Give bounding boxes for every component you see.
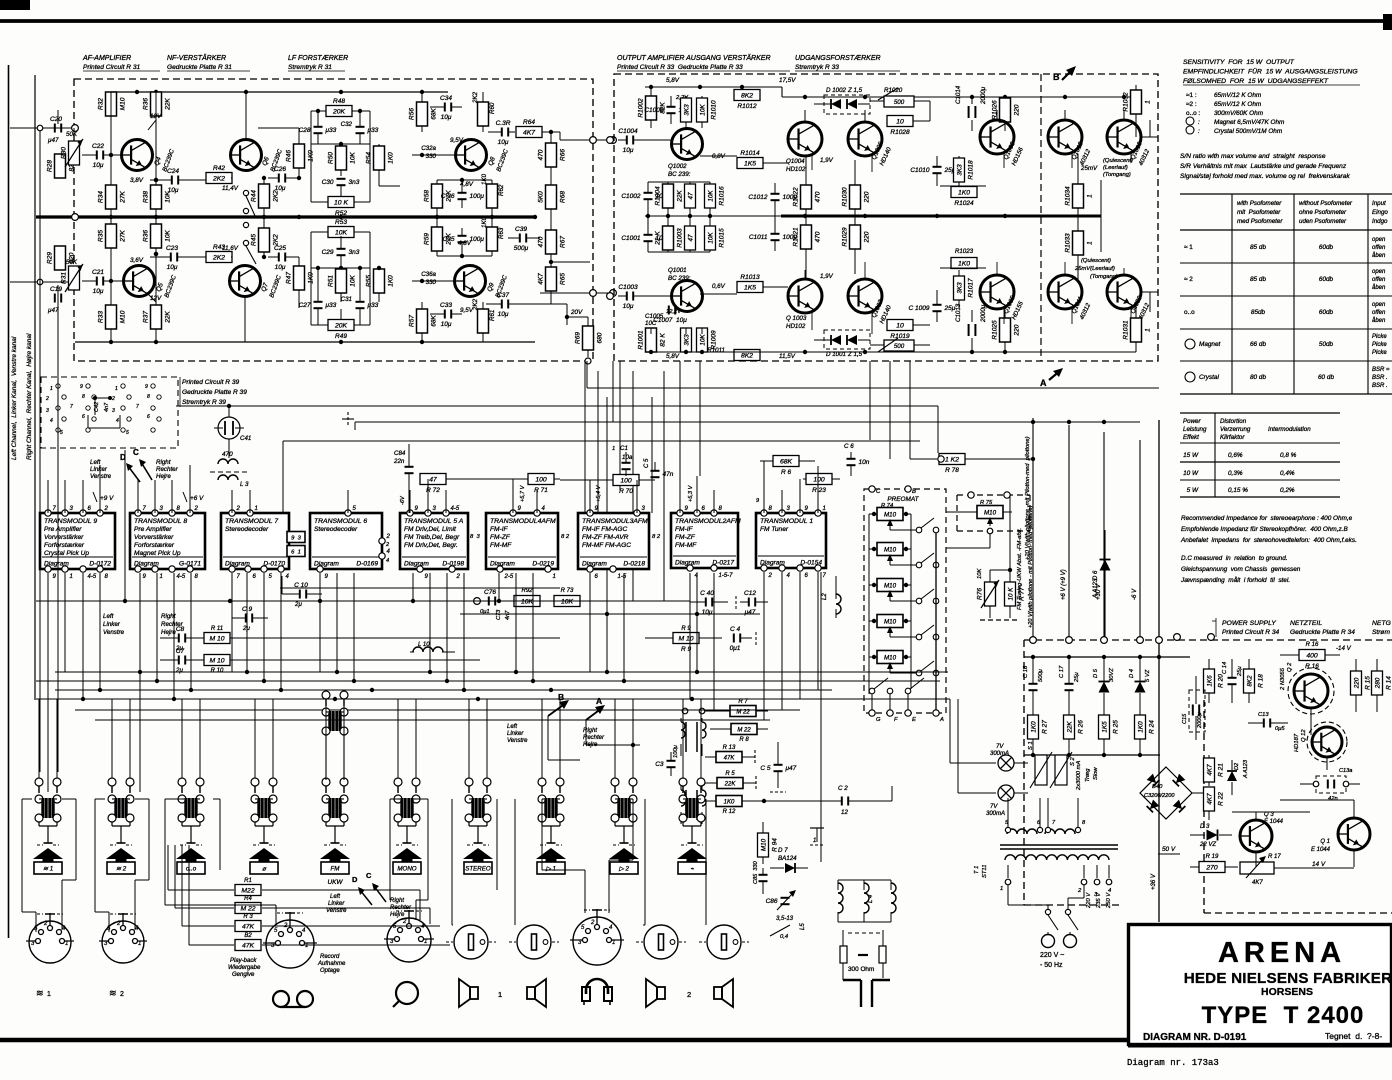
svg-text:50db: 50db (1319, 341, 1334, 348)
svg-text:100μ: 100μ (673, 744, 679, 758)
wire right out upper (1141, 136, 1158, 138)
svg-text:FM Tuning-UKW Abst. -FM-afst.: FM Tuning-UKW Abst. -FM-afst. (1017, 528, 1023, 610)
resistor R1006-47 (685, 184, 696, 208)
page border bottom (0, 1038, 1128, 1043)
svg-text:1K0: 1K0 (958, 261, 970, 268)
svg-text:≋ 1: ≋ 1 (43, 865, 53, 872)
svg-text:C26: C26 (274, 166, 286, 173)
svg-text:R4: R4 (244, 896, 252, 902)
svg-text:5,8V: 5,8V (666, 353, 680, 360)
svg-text:HD102: HD102 (786, 166, 806, 173)
svg-text:with Psofometer: with Psofometer (1237, 200, 1282, 207)
svg-text:25mV: 25mV (1080, 165, 1098, 172)
svg-text:uden Psofometer: uden Psofometer (1299, 218, 1347, 225)
rail +20V pilottone (1032, 418, 1034, 640)
function label ▷ 1 (537, 862, 565, 874)
svg-text:Intermodulation: Intermodulation (1268, 426, 1311, 433)
resistor R1031 (1131, 318, 1142, 342)
svg-text:R32: R32 (98, 98, 105, 110)
preomat lower contacts (869, 688, 875, 694)
resistor R1003 (663, 226, 674, 250)
node link lower right (610, 290, 617, 297)
svg-text:Z 1,5: Z 1,5 (847, 351, 863, 358)
wire Q emitters upper (811, 155, 813, 170)
svg-text:65mV/12 K Ohm: 65mV/12 K Ohm (1214, 92, 1262, 99)
svg-text:FM-MF FM-AGC: FM-MF FM-AGC (582, 542, 631, 549)
svg-text:10 W: 10 W (1183, 470, 1199, 477)
svg-text:Hejre: Hejre (156, 473, 171, 480)
svg-text:R52: R52 (335, 210, 347, 217)
svg-text:3K3: 3K3 (956, 164, 963, 176)
wire Q collectors upper (804, 110, 806, 122)
svg-text:1: 1 (255, 506, 258, 512)
svg-text:12V: 12V (150, 113, 162, 120)
svg-text:1K0: 1K0 (388, 152, 395, 164)
resistor R36 (151, 92, 162, 116)
svg-text:0,6V: 0,6V (712, 283, 726, 290)
svg-text:Left: Left (330, 894, 340, 900)
wire top rail (111, 91, 448, 93)
svg-text:D 5: D 5 (1093, 668, 1099, 678)
connector board R39 (41, 377, 178, 448)
capacitor C22 (96, 151, 98, 160)
svg-text:-14 V: -14 V (1336, 645, 1352, 652)
feeder 300 Ohm (840, 946, 847, 963)
svg-text:3n3: 3n3 (349, 179, 360, 186)
svg-text:C1002: C1002 (621, 193, 641, 200)
svg-text:C42: C42 (94, 402, 100, 412)
svg-text:47: 47 (687, 234, 694, 242)
svg-text:1K0: 1K0 (481, 173, 488, 185)
svg-text:M10: M10 (884, 654, 897, 661)
svg-text:10: 10 (896, 119, 904, 126)
svg-text:R44: R44 (251, 190, 258, 202)
svg-text:R1034: R1034 (1065, 186, 1072, 206)
capacitor C7 + resistor R10 (178, 656, 180, 665)
function label ≋ 2 (107, 862, 135, 874)
switch feed wires (38, 699, 40, 778)
mains switch contacts (1045, 909, 1050, 914)
svg-text:L 10: L 10 (418, 642, 430, 648)
svg-text:E 1044: E 1044 (1311, 847, 1331, 853)
wire drop group out (679, 361, 681, 490)
potentiometer R30 (69, 141, 80, 165)
svg-text:9 3: 9 3 (291, 535, 301, 541)
svg-text:C 6: C 6 (844, 443, 854, 450)
svg-text:6: 6 (147, 414, 150, 420)
svg-text:R 8: R 8 (739, 737, 749, 743)
svg-text:Jævnspænding målt i forhold: Jævnspænding målt i forhold til stel. (1180, 576, 1290, 584)
icon speaker 1 (470, 987, 478, 999)
svg-text:BSR =: BSR = (1372, 367, 1390, 373)
svg-text:R54: R54 (366, 152, 373, 164)
svg-text:R1028: R1028 (890, 129, 910, 136)
svg-text:Optage: Optage (320, 968, 340, 974)
capacitor C20 (54, 124, 56, 133)
svg-text:R46: R46 (286, 150, 293, 162)
svg-text:B40: B40 (1152, 784, 1163, 790)
svg-text:2μ: 2μ (175, 667, 183, 674)
svg-text:220: 220 (864, 231, 871, 243)
node input left low (72, 279, 79, 286)
svg-text:25μ: 25μ (1237, 666, 1243, 677)
svg-text:100: 100 (813, 477, 825, 484)
wires R1-R2 stack (262, 889, 420, 891)
svg-text:FM-ZF: FM-ZF (490, 534, 511, 541)
function label ⌀ (250, 862, 278, 874)
resistor R62 (487, 184, 498, 208)
svg-text:C84: C84 (394, 450, 406, 457)
node C76 input (474, 598, 481, 605)
transistor Q1004 (788, 122, 822, 156)
svg-text:470: 470 (538, 236, 545, 247)
svg-text:Q 1003: Q 1003 (786, 315, 807, 322)
bus wire 5 (36, 698, 950, 700)
svg-text:Slow: Slow (1093, 767, 1099, 780)
svg-text:1: 1 (1000, 886, 1003, 892)
svg-text:BSR .: BSR . (1372, 383, 1388, 389)
svg-text:470: 470 (815, 231, 822, 242)
diode D1002 Z1,5 (824, 95, 870, 114)
svg-text:10μ: 10μ (168, 187, 179, 194)
distortion table grid (1180, 412, 1340, 414)
svg-text:10μ: 10μ (623, 147, 634, 154)
svg-text:FØLSOMHED FOR 15 W UDGANGSE: FØLSOMHED FOR 15 W UDGANGSEFFEKT (1183, 78, 1329, 85)
svg-text:FM-MF: FM-MF (490, 542, 512, 549)
svg-text:4-5: 4-5 (177, 574, 186, 580)
wire out column (1100, 215, 1102, 217)
svg-text:Q1002: Q1002 (668, 163, 687, 170)
svg-text:R55: R55 (366, 275, 373, 287)
svg-text:Venstre: Venstre (90, 473, 112, 480)
inner dashed separator (1040, 74, 1042, 361)
svg-text:R 20: R 20 (1218, 674, 1225, 688)
svg-text:Printed Circuit R 31: Printed Circuit R 31 (83, 64, 141, 71)
svg-text:22 K: 22 K (655, 231, 662, 246)
jack socket 4 (707, 925, 741, 959)
svg-text:M10: M10 (884, 618, 897, 625)
svg-text:μ33: μ33 (367, 302, 379, 309)
svg-text:R33: R33 (98, 311, 105, 323)
svg-text:Stereodecoder: Stereodecoder (225, 526, 269, 533)
wire rail link top (587, 387, 1159, 389)
wire fb upper (311, 143, 370, 145)
resistor R14 (1372, 671, 1383, 695)
svg-text:2000μ: 2000μ (980, 304, 987, 323)
resistor R1007-3K3 (681, 328, 692, 352)
svg-text:Diagram: Diagram (404, 561, 429, 568)
function label FM (321, 862, 349, 874)
svg-text:without Psofometer: without Psofometer (1299, 200, 1353, 207)
svg-text:2: 2 (236, 506, 241, 512)
svg-text:offen: offen (1372, 245, 1386, 251)
pins module 9 top (45, 510, 51, 516)
svg-text:L2: L2 (822, 593, 828, 600)
svg-text:27K: 27K (120, 230, 127, 243)
svg-text:Venstre: Venstre (103, 629, 125, 636)
function label o..o (177, 862, 205, 874)
transistor Q1006 (848, 122, 882, 156)
svg-text:(Tomgang): (Tomgang) (1103, 172, 1131, 178)
svg-text:Recommended Impedance for ste: Recommended Impedance for stereoearphone… (1181, 515, 1353, 522)
transistor Q5 (124, 266, 155, 297)
svg-text:Vorverstärker: Vorverstärker (134, 534, 174, 541)
svg-text:D-0218: D-0218 (623, 561, 645, 568)
svg-text:C3: C3 (655, 761, 664, 768)
svg-text:R29: R29 (47, 252, 54, 264)
svg-text:D-0169: D-0169 (356, 561, 378, 568)
svg-text:4K7: 4K7 (1252, 880, 1263, 886)
svg-text:300 Ohm: 300 Ohm (848, 966, 874, 973)
svg-text:+20 V(with pilottone - mit Pil: +20 V(with pilottone - mit Pilotton- med… (1028, 506, 1034, 628)
svg-text:+9 V: +9 V (100, 495, 114, 502)
resistor R1011 (734, 350, 760, 361)
svg-text:open: open (1372, 302, 1386, 308)
svg-text:C: C (876, 489, 881, 495)
resistor R1025 (1000, 318, 1011, 342)
svg-text:o..o: o..o (1184, 309, 1195, 316)
resistor R42 (206, 173, 232, 184)
wires to DIN 2 (95, 798, 105, 800)
svg-text:50K: 50K (66, 131, 78, 138)
svg-text:10K: 10K (561, 599, 574, 606)
svg-text:D2: D2 (1234, 762, 1240, 770)
svg-text:8: 8 (147, 394, 150, 400)
svg-text:R1015: R1015 (719, 228, 726, 248)
S/N table row Magnet (1185, 339, 1195, 349)
svg-text:4-5: 4-5 (451, 506, 460, 512)
svg-text:C7: C7 (176, 648, 185, 655)
resistor R1010 (697, 98, 708, 122)
svg-text:UDGANGSFORSTÆRKER: UDGANGSFORSTÆRKER (795, 55, 881, 62)
svg-text:+5,7 V: +5,7 V (520, 484, 526, 502)
svg-text:C 1009: C 1009 (909, 305, 930, 312)
svg-text:2-5: 2-5 (504, 574, 514, 580)
svg-text:2: 2 (43, 921, 48, 927)
svg-text:R57: R57 (409, 315, 416, 327)
svg-text:R 18: R 18 (1258, 674, 1265, 688)
svg-text:R1032: R1032 (1123, 92, 1130, 112)
IF transformer upper (685, 722, 687, 752)
svg-text:Printed Circuit R 33 Gedruckt: Printed Circuit R 33 Gedruckte Platte R … (617, 64, 743, 71)
svg-text:300mA: 300mA (986, 811, 1005, 817)
svg-text:HORSENS: HORSENS (1261, 986, 1313, 998)
svg-text:L 3: L 3 (240, 481, 249, 488)
svg-text:Linker: Linker (90, 466, 108, 473)
svg-text:C76: C76 (484, 589, 496, 596)
svg-text:20V: 20V (570, 309, 583, 316)
svg-text:C15: C15 (1182, 713, 1188, 724)
capacitor C1011 (771, 233, 780, 235)
switch assembly STEREO (465, 778, 473, 786)
svg-text:Q1001: Q1001 (668, 267, 687, 274)
svg-text:11,4V: 11,4V (222, 185, 239, 192)
wire tuner frame (838, 879, 891, 881)
svg-text:Eingo: Eingo (1372, 209, 1388, 216)
jack socket aux (454, 925, 488, 959)
svg-text:1K5: 1K5 (744, 285, 756, 292)
svg-text:22K: 22K (677, 190, 684, 203)
svg-text:R 6: R 6 (781, 469, 792, 476)
resistor R66 (546, 143, 557, 167)
svg-text:10K: 10K (350, 152, 357, 164)
transistor Q1001 (672, 281, 703, 312)
svg-text:Hejre: Hejre (390, 912, 405, 918)
svg-text:R69: R69 (575, 332, 582, 344)
svg-text:9: 9 (145, 384, 148, 390)
resistor R1008-3K3 (681, 98, 692, 122)
resistor R35 (106, 224, 117, 248)
svg-text:5 W: 5 W (1187, 487, 1199, 494)
svg-text:R1004: R1004 (655, 186, 662, 206)
svg-text:-6V: -6V (400, 495, 406, 505)
bus wire 8 (280, 587, 560, 589)
bus wire 1 (36, 600, 690, 602)
resistor R18 (1244, 669, 1255, 693)
svg-text:2K2: 2K2 (472, 298, 479, 311)
resistor R52 (328, 197, 354, 208)
resistor R28 (55, 154, 66, 178)
resistor R1026 (1000, 98, 1011, 122)
inductor L4 (864, 883, 869, 913)
svg-text:R 15: R 15 (1365, 676, 1372, 690)
fuse S2 (1055, 755, 1067, 785)
svg-text:10K: 10K (707, 232, 714, 244)
svg-text:1: 1 (823, 506, 826, 512)
svg-text:B2: B2 (244, 933, 252, 939)
svg-text:TYPE T 2400: TYPE T 2400 (1202, 1002, 1365, 1029)
svg-text:FM-IF FM-AGC: FM-IF FM-AGC (582, 526, 628, 533)
svg-text:Left: Left (103, 613, 114, 620)
capacitor C1006 (667, 106, 676, 108)
resistor R20 (1204, 669, 1215, 693)
svg-text:R1030: R1030 (842, 187, 849, 207)
svg-text:R48: R48 (333, 98, 345, 105)
svg-text:68K: 68K (431, 108, 438, 120)
svg-text:C13a: C13a (1339, 768, 1352, 774)
svg-text:R 12: R 12 (723, 809, 736, 815)
svg-text:R 19: R 19 (1206, 854, 1219, 860)
resistor R1018 (954, 158, 965, 182)
transistor Q1002 (672, 129, 703, 160)
resistor R7 (730, 706, 756, 717)
function arrow MONO (392, 848, 422, 863)
svg-text:2: 2 (194, 506, 199, 512)
resistor R67 (546, 230, 557, 254)
svg-text:Stremtryk R 31: Stremtryk R 31 (288, 64, 332, 71)
svg-text:C1013: C1013 (955, 303, 962, 322)
wire rail link 3 (283, 440, 920, 442)
resistor R64 (516, 127, 542, 138)
svg-text:2: 2 (104, 506, 109, 512)
svg-text:2: 2 (120, 991, 124, 998)
svg-text:330: 330 (426, 279, 437, 286)
svg-text:4: 4 (386, 558, 389, 564)
svg-text:R 14: R 14 (1386, 676, 1392, 690)
svg-text:47n: 47n (663, 471, 674, 478)
svg-text:2K2: 2K2 (472, 91, 479, 104)
svg-text:2: 2 (590, 920, 595, 926)
resistor R1 (235, 885, 261, 896)
svg-text:μ33: μ33 (325, 127, 337, 134)
svg-text:C 2: C 2 (838, 785, 848, 792)
svg-text:17,5V: 17,5V (779, 77, 796, 84)
svg-text:Stremtryk R 33: Stremtryk R 33 (795, 64, 839, 71)
svg-text:B: B (912, 489, 916, 495)
svg-text:10μ: 10μ (441, 321, 452, 328)
svg-text:220 V: 220 V (1086, 892, 1092, 909)
svg-text:14 V: 14 V (1312, 861, 1326, 868)
wires ps internals (1255, 852, 1257, 867)
svg-text:Stereodecoder: Stereodecoder (314, 526, 358, 533)
resistor R58 (432, 184, 443, 208)
svg-text:R50: R50 (328, 152, 335, 164)
svg-text:85 db: 85 db (1250, 244, 1266, 251)
resistor R49 (328, 320, 354, 331)
svg-text:PREOMAT: PREOMAT (887, 496, 919, 503)
svg-text:D.C measured in relation to: D.C measured in relation to ground. (1181, 555, 1288, 562)
svg-text:4K7: 4K7 (523, 130, 535, 137)
inductor L6 (891, 883, 896, 913)
resistor R73 (554, 596, 580, 607)
capacitor C10 (299, 590, 301, 599)
pins module 5A top (407, 510, 413, 516)
svg-text:Signal/støj forhold med max. v: Signal/støj forhold med max. volume og r… (1180, 173, 1350, 180)
potentiometer R17 (1240, 862, 1274, 874)
capacitor C86 trimmer (781, 897, 790, 899)
wire Q emitters lower (811, 310, 813, 330)
svg-text:+6 V: +6 V (190, 495, 204, 502)
svg-text:2000μ: 2000μ (1197, 712, 1203, 729)
transistor Q6 (231, 140, 262, 171)
antenna wires (842, 963, 844, 980)
svg-text:Venstre: Venstre (326, 908, 347, 914)
resistor R12 (716, 796, 742, 807)
resistor R78 (939, 454, 965, 465)
svg-text:1: 1 (1087, 241, 1094, 245)
svg-text:TRANSMODUL 6: TRANSMODUL 6 (314, 518, 367, 525)
svg-text:1: 1 (47, 991, 51, 998)
function label ⌁ (678, 862, 706, 874)
resistor R26 (1064, 715, 1075, 739)
left border wire inner (34, 75, 36, 700)
svg-text:0,8 %: 0,8 % (1280, 452, 1297, 459)
svg-text:C 5: C 5 (760, 765, 771, 772)
resistor R47 (294, 266, 305, 290)
svg-text:FM Driv,Det, Begr.: FM Driv,Det, Begr. (404, 542, 458, 549)
resistor R1032 (1131, 90, 1142, 114)
svg-text:C32a: C32a (421, 145, 436, 152)
transistor Q2 2N3055 (1294, 674, 1328, 708)
svg-text:D 1001: D 1001 (826, 351, 846, 358)
svg-text:270: 270 (1205, 865, 1218, 872)
svg-text:11,5V: 11,5V (779, 353, 796, 360)
svg-text:A: A (1040, 378, 1047, 388)
supply lower rail (1024, 754, 1160, 756)
svg-text:R1001: R1001 (638, 330, 645, 350)
svg-text:STEREO: STEREO (465, 865, 491, 872)
svg-text:Tegnet d. ?-8-: Tegnet d. ?-8- (1325, 1031, 1382, 1041)
svg-text:10μ: 10μ (441, 114, 452, 121)
svg-text:280: 280 (1374, 677, 1381, 689)
resistor R22 (1204, 787, 1215, 811)
svg-text:Træg: Træg (1085, 768, 1091, 782)
svg-text:R1010: R1010 (711, 100, 718, 120)
module TRANSMODUL 3AFM (578, 513, 649, 569)
svg-text:2: 2 (116, 921, 121, 927)
svg-text:220: 220 (1014, 324, 1021, 336)
pins module 1 bottom (761, 565, 767, 571)
